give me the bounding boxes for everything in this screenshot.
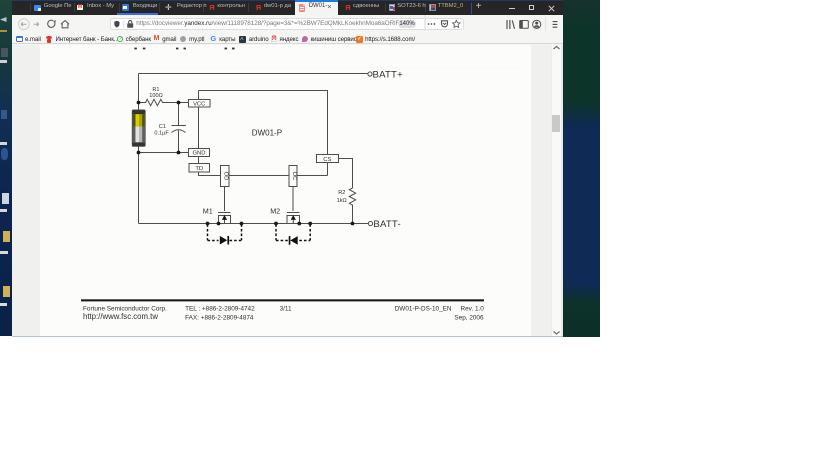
svg-text:R2: R2 xyxy=(338,190,345,196)
svg-text:0.1µF: 0.1µF xyxy=(154,131,169,137)
svg-text:1kΩ: 1kΩ xyxy=(337,198,347,204)
svg-text:R1: R1 xyxy=(152,87,159,93)
svg-text:3/11: 3/11 xyxy=(280,305,292,312)
svg-text:BATT+: BATT+ xyxy=(373,69,404,80)
svg-text:Sep, 2006: Sep, 2006 xyxy=(454,315,484,322)
svg-text:C1: C1 xyxy=(159,124,166,130)
svg-text:OD: OD xyxy=(223,172,229,181)
svg-text:BATT-: BATT- xyxy=(373,219,400,230)
svg-text:DW01-P-DS-10_EN: DW01-P-DS-10_EN xyxy=(395,305,452,312)
svg-text:Rev. 1.0: Rev. 1.0 xyxy=(461,305,485,312)
svg-text:DW01-P: DW01-P xyxy=(252,128,282,137)
svg-text:GND: GND xyxy=(193,151,206,157)
svg-text:M1: M1 xyxy=(203,207,213,216)
svg-text:100Ω: 100Ω xyxy=(149,93,163,99)
svg-text:VCC: VCC xyxy=(193,101,205,107)
svg-text:TEL : +886-2-2809-4742: TEL : +886-2-2809-4742 xyxy=(185,305,255,312)
svg-text:TD: TD xyxy=(195,166,203,172)
svg-text:http://www.fsc.com.tw: http://www.fsc.com.tw xyxy=(83,312,158,321)
svg-text:FAX: +886-2-2809-4874: FAX: +886-2-2809-4874 xyxy=(185,315,254,322)
svg-text:M2: M2 xyxy=(270,207,280,216)
svg-text:CS: CS xyxy=(323,157,331,163)
svg-text:OC: OC xyxy=(291,172,297,181)
